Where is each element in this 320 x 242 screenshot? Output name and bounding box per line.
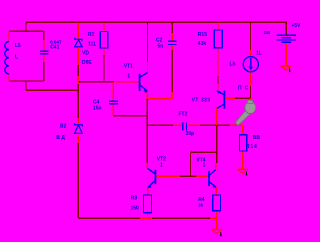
svg-text:L5: L5: [15, 43, 21, 49]
svg-text:VD: VD: [82, 51, 89, 57]
svg-text:43k: 43k: [198, 41, 207, 47]
svg-text:3k: 3k: [198, 203, 203, 208]
svg-text:30p: 30p: [186, 131, 195, 137]
svg-text:VT1: VT1: [124, 63, 133, 69]
svg-text:111: 111: [88, 41, 96, 47]
svg-text:1: 1: [127, 73, 130, 79]
svg-text:1: 1: [160, 163, 163, 169]
svg-text:R15: R15: [198, 32, 207, 38]
svg-text:150: 150: [131, 205, 140, 211]
svg-text:R1: R1: [88, 32, 95, 38]
svg-text:B Д: B Д: [56, 135, 65, 141]
svg-text:C41: C41: [50, 44, 59, 50]
svg-text:L: L: [15, 55, 18, 61]
svg-text:R3: R3: [131, 195, 138, 201]
svg-text:Lh: Lh: [230, 61, 236, 67]
svg-text:15n: 15n: [93, 106, 102, 112]
svg-text:D9E: D9E: [82, 60, 92, 66]
svg-text:VT 323: VT 323: [192, 97, 211, 103]
svg-text:BB: BB: [253, 135, 261, 141]
svg-text:GB: GB: [264, 30, 271, 35]
svg-text:+5V: +5V: [291, 23, 301, 29]
svg-text:1L: 1L: [256, 51, 262, 57]
svg-text:VT2: VT2: [157, 156, 166, 162]
svg-text:ПС: ПС: [238, 85, 251, 91]
svg-text:5n: 5n: [158, 43, 164, 49]
svg-text:1: 1: [203, 163, 206, 169]
svg-text:FT2: FT2: [179, 111, 188, 117]
svg-text:B2: B2: [60, 124, 67, 130]
svg-text:R14: R14: [246, 144, 258, 150]
